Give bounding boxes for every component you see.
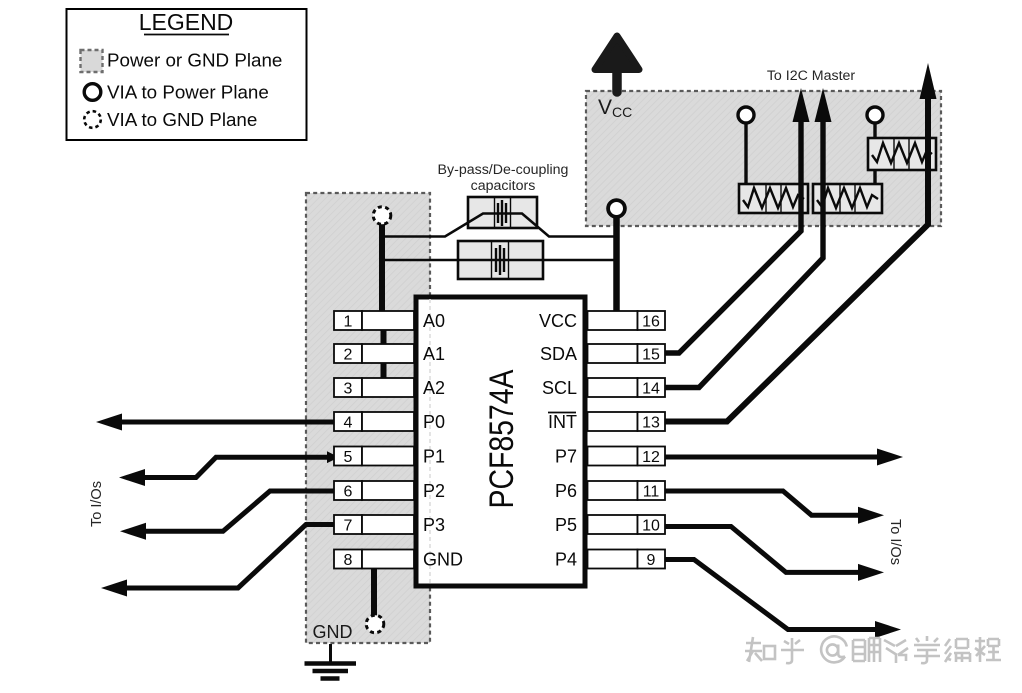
svg-text:8: 8 — [344, 552, 353, 569]
capacitor C1 (upper bypass cap) body — [468, 197, 537, 228]
wire P7 to I/Os (pin 12, right arrow) — [663, 455, 880, 460]
svg-text:9: 9 — [647, 552, 656, 569]
wire: via V2 to R2/R3 — [873, 123, 876, 200]
svg-text:LEGEND: LEGEND — [139, 9, 234, 35]
svg-text:11: 11 — [643, 484, 660, 501]
via V3 to power plane (above VCC pin) — [608, 200, 625, 217]
via V4 to GND plane (top of left plane) — [373, 207, 391, 225]
cheng — [975, 637, 1001, 662]
svg-text:5: 5 — [344, 449, 353, 466]
resistor R1 (SDA pull-up) — [739, 184, 808, 213]
pin labels right — [539, 311, 577, 570]
IC U1 PCF8574A body — [416, 297, 585, 586]
wire P1 to I/Os (pin 5, left arrow) — [327, 451, 339, 463]
via V5 to GND plane (bottom) — [366, 615, 384, 633]
diao — [853, 638, 880, 662]
watermark — [745, 636, 1001, 663]
resistor R3 (INT pull-up) — [868, 138, 936, 170]
svg-text:10: 10 — [642, 518, 660, 535]
ye — [884, 640, 908, 663]
capacitor C2 plates — [496, 245, 504, 275]
wire P6 to I/Os (pin 11, right arrow) — [663, 491, 861, 515]
wire P4 to I/Os (pin 9, right arrow) — [663, 560, 878, 630]
pin 6 boxes — [334, 481, 362, 500]
svg-text:SCL: SCL — [542, 378, 577, 398]
svg-text:VCC: VCC — [539, 311, 577, 331]
wire INT (pin 13, far right up arrow) — [663, 95, 928, 422]
pin 11 boxes — [588, 481, 638, 500]
svg-text:4: 4 — [344, 415, 353, 432]
power plane (top-right VCC plane region) — [586, 91, 941, 226]
svg-text:2: 2 — [344, 347, 353, 364]
pin 2 boxes — [334, 344, 362, 363]
svg-text:3: 3 — [344, 381, 353, 398]
pin 13 boxes — [588, 412, 638, 431]
svg-text:VIA to GND Plane: VIA to GND Plane — [107, 109, 257, 130]
wire: GND pin 8 to via — [371, 568, 377, 615]
svg-text:INT: INT — [548, 412, 577, 432]
svg-text:PCF8574A: PCF8574A — [483, 369, 521, 508]
svg-text:P3: P3 — [423, 515, 445, 535]
wire P2 to I/Os (pin 6, left arrow) — [145, 491, 336, 531]
legend symbol: via to gnd plane — [84, 111, 101, 128]
pin 16 boxes — [588, 311, 638, 330]
via V2 to power plane (pull-ups R2/R3) — [867, 107, 883, 123]
zhi — [745, 637, 762, 662]
wire: thick VCC trace from via to pin 16 — [613, 212, 620, 311]
legend symbol: via to power plane — [84, 84, 101, 101]
svg-text:GND: GND — [313, 622, 353, 642]
svg-text:6: 6 — [344, 484, 353, 501]
ground symbol — [305, 644, 357, 679]
bian — [945, 639, 970, 662]
svg-text:VIA to Power Plane: VIA to Power Plane — [107, 82, 269, 103]
svg-text:12: 12 — [642, 449, 660, 466]
svg-text:To I/Os: To I/Os — [89, 481, 105, 527]
faint plane edge behind IC — [429, 299, 431, 584]
INT overline — [548, 412, 576, 414]
wire P3 to I/Os (pin 7, left arrow) — [126, 525, 336, 589]
pin 15 boxes — [588, 344, 638, 363]
pin 14 boxes — [588, 378, 638, 397]
pin 7 boxes — [334, 515, 362, 534]
hu — [781, 638, 804, 663]
wire SCL to I2C master (pin 14, up arrow) — [663, 119, 823, 388]
pin 5 boxes — [334, 447, 362, 466]
resistor R2 (SCL pull-up) — [813, 184, 882, 213]
capacitor C1 plates — [498, 200, 506, 226]
wire: bypass cap C2 net (bottom) — [383, 259, 616, 262]
GND plane (left power/gnd plane region) — [306, 193, 430, 643]
xue — [914, 636, 940, 663]
wire: via V1 to R1 — [744, 123, 747, 202]
wire P5 to I/Os (pin 10, right arrow) — [663, 527, 861, 573]
wire P0 to I/Os (pin 4, left arrow) — [118, 420, 336, 425]
svg-text:P4: P4 — [555, 550, 577, 570]
svg-text:By-pass/De-coupling: By-pass/De-coupling — [438, 162, 569, 178]
svg-text:SDA: SDA — [540, 344, 577, 364]
svg-text:13: 13 — [642, 415, 660, 432]
wire: bypass cap C1 net (top) — [383, 214, 616, 237]
pin 9 boxes — [588, 550, 638, 569]
svg-text:P6: P6 — [555, 481, 577, 501]
svg-text:P5: P5 — [555, 515, 577, 535]
via V1 to power plane (pull-up R1) — [738, 107, 754, 123]
pin 1 boxes — [334, 311, 665, 569]
pin 4 boxes — [334, 412, 362, 431]
svg-text:15: 15 — [642, 347, 660, 364]
pin 10 boxes — [588, 515, 638, 534]
svg-text:16: 16 — [642, 314, 660, 331]
VCC supply arrow — [595, 36, 639, 92]
svg-text:P7: P7 — [555, 447, 577, 467]
svg-text:Power or GND Plane: Power or GND Plane — [107, 50, 282, 71]
legend swatch: power or gnd plane — [81, 50, 103, 72]
svg-text:To I2C Master: To I2C Master — [767, 68, 856, 84]
svg-text:capacitors: capacitors — [471, 178, 536, 194]
pin 8 boxes — [334, 550, 362, 569]
svg-text:P1: P1 — [423, 447, 445, 467]
svg-text:1: 1 — [344, 314, 353, 331]
svg-text:P2: P2 — [423, 481, 445, 501]
svg-text:To I/Os: To I/Os — [887, 519, 903, 565]
svg-text:GND: GND — [423, 550, 463, 570]
at — [821, 636, 847, 662]
pin 3 boxes — [334, 378, 362, 397]
pin labels left — [423, 311, 463, 570]
pin 12 boxes — [588, 447, 638, 466]
legend box — [67, 9, 307, 140]
svg-text:A2: A2 — [423, 378, 445, 398]
svg-text:P0: P0 — [423, 412, 445, 432]
pin numbers left — [344, 314, 660, 570]
wire SDA to I2C master (pin 15, up arrow) — [663, 119, 801, 353]
capacitor C2 (lower bypass cap) body — [458, 241, 543, 279]
svg-text:14: 14 — [642, 381, 660, 398]
svg-text:A0: A0 — [423, 311, 445, 331]
svg-text:7: 7 — [344, 518, 353, 535]
wire: thick GND trace from dashed via down through A0-A2 pin straps — [379, 222, 385, 312]
svg-text:A1: A1 — [423, 344, 445, 364]
